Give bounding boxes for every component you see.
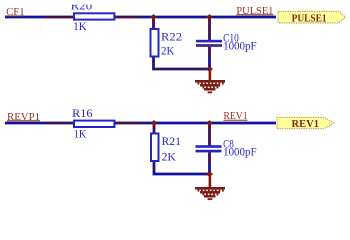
wire: R21 bottom to rail corner (154, 162, 210, 174)
node E junction dot bottom wire / C8 branch (206, 120, 213, 126)
wire: R22 branch vertical (152, 17, 155, 28)
resistor R21 (151, 134, 159, 162)
wire: R22 bottom to rail corner (154, 58, 210, 70)
svg-text:PULSE1: PULSE1 (292, 13, 327, 24)
svg-text:R22: R22 (161, 30, 182, 44)
wire: top horizontal net CF1 to PULSE1 port (5, 16, 276, 19)
pin overlay R16 pin1 (46, 122, 73, 124)
capacitor C8 plate2 (196, 150, 222, 153)
pin overlay C8 pin2 (208, 153, 210, 163)
pin overlay R16 pin2 (115, 122, 141, 124)
resistor R16 (74, 121, 114, 127)
netlabel REV1 underline (224, 119, 248, 121)
svg-text:1000pF: 1000pF (223, 39, 257, 53)
resistor R22 (151, 29, 159, 57)
capacitor C8 plate1 (196, 145, 222, 148)
pin overlay R21 pin2 (153, 162, 155, 168)
pin overlay C8 pin1 (208, 126, 210, 145)
port PULSE1 (278, 11, 346, 23)
resistor R20 (74, 13, 114, 19)
netlabel REVP1 underline (7, 120, 40, 122)
wire: C10 bottom to ground junction (208, 47, 211, 69)
node A junction dot top wire / R22 branch (150, 14, 157, 20)
wire: bottom horizontal net REVP1 to REV1 port (5, 122, 276, 125)
svg-text:2K: 2K (161, 43, 175, 57)
svg-text:2K: 2K (162, 150, 177, 164)
svg-text:1K: 1K (74, 127, 87, 141)
capacitor C10 plate1 (196, 40, 222, 43)
capacitor C10 plate2 (196, 44, 222, 47)
pin overlay R22 pin2 + rail dashes (154, 58, 210, 69)
svg-text:R21: R21 (162, 134, 182, 148)
svg-text:REV1: REV1 (292, 119, 320, 130)
port REV1 (277, 117, 334, 128)
pin overlay C10 pin2 (208, 47, 210, 58)
netlabel PULSE1 underline (236, 14, 273, 16)
pin overlay C10 pin1 (208, 20, 210, 40)
svg-text:1K: 1K (73, 19, 87, 33)
wire: C8 bottom to ground junction (208, 152, 211, 174)
ground GND top (195, 69, 225, 93)
wire: C10 branch vertical top (208, 17, 211, 41)
ground GND bottom (195, 174, 225, 200)
svg-text:1000pF: 1000pF (223, 145, 257, 159)
node B junction dot top wire / C10 branch (206, 14, 213, 20)
svg-text:R16: R16 (72, 106, 93, 120)
wire: R21 branch vertical (153, 123, 156, 133)
node F junction dot bottom rail / ground (206, 171, 213, 177)
pin overlay R21 pin1 (153, 125, 155, 133)
pin overlay R20 pin2 (115, 16, 141, 18)
node D junction dot bottom wire / R21 branch (151, 120, 158, 126)
pin overlay C10 plate2 dashes (196, 44, 222, 46)
pin overlay R22 pin1 (152, 19, 154, 28)
netlabel CF1 underline (6, 15, 24, 17)
node C junction dot rail / ground (206, 66, 213, 72)
wire: C8 branch vertical top (208, 123, 211, 146)
pin overlay R20 pin1 (46, 16, 73, 18)
